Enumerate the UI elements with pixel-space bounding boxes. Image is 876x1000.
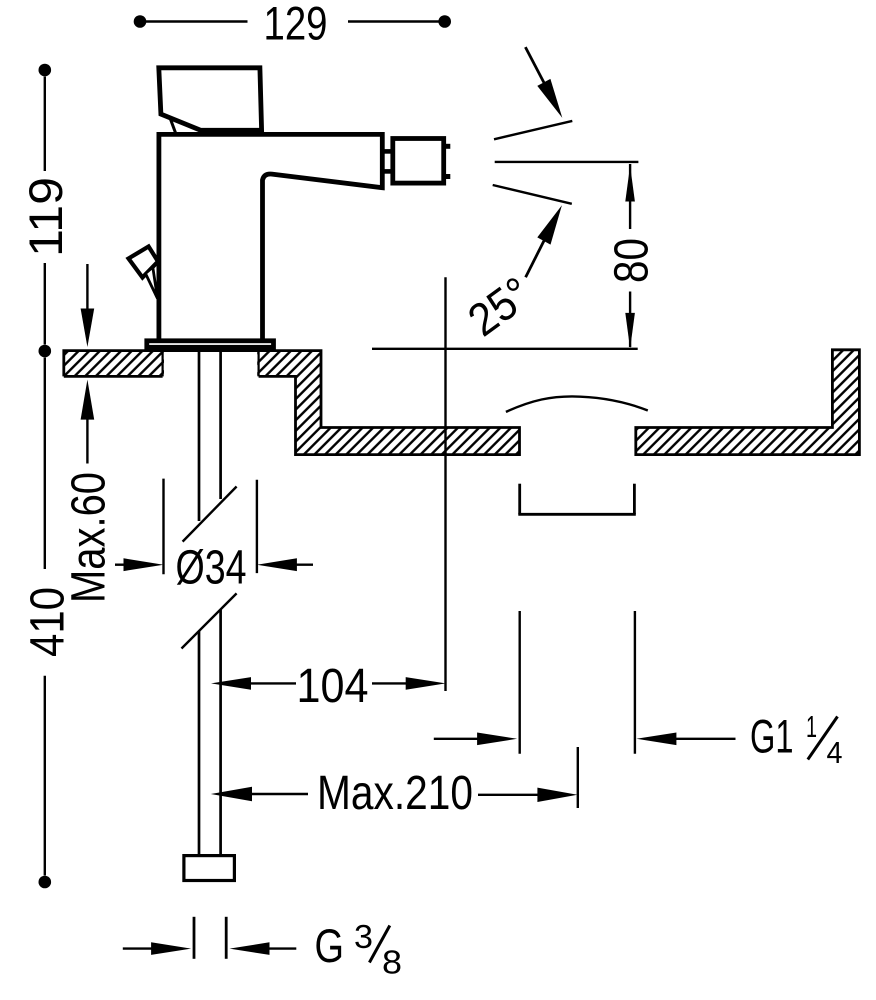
- svg-text:129: 129: [264, 0, 328, 50]
- supply pipe right upper: [219, 351, 222, 500]
- aerator connect tick lower: [383, 169, 391, 174]
- dim O34 tail right: [295, 564, 313, 566]
- dim Max60 arrow down: [81, 309, 95, 348]
- dim 104 tail right: [372, 682, 407, 684]
- svg-text:G1: G1: [750, 710, 794, 763]
- dim 129 line right: [348, 20, 441, 22]
- dim Max210 arrow right: [537, 788, 577, 802]
- dim 104 arrow left: [211, 677, 251, 690]
- supply pipe left upper: [198, 351, 201, 522]
- left dim line seg 3: [44, 358, 46, 570]
- svg-text:80: 80: [605, 238, 658, 283]
- dim Max60 upper shaft: [86, 264, 88, 310]
- dim 129 dot right: [438, 15, 451, 28]
- drain centerline: [444, 277, 446, 691]
- dim O34 arrow left: [124, 558, 164, 571]
- aerator body: [393, 139, 444, 184]
- drain stub left: [518, 484, 521, 515]
- drain stub bottom: [518, 513, 636, 516]
- dim G114 ext line left: [519, 611, 521, 754]
- countertop right section hatch fill: [636, 350, 860, 455]
- aerator nub upper: [446, 144, 450, 149]
- svg-text:G: G: [315, 919, 345, 972]
- faucet hole edge right: [258, 352, 260, 376]
- dim Max210 tail right: [478, 794, 538, 796]
- dim 80 arrow down: [625, 313, 635, 349]
- countertop left section hatch fill: [64, 351, 520, 455]
- dim O34 arrow right: [257, 558, 297, 571]
- faucet hole gap in countertop: [164, 352, 257, 378]
- water surface reference line: [372, 348, 638, 350]
- svg-text:3: 3: [354, 918, 373, 955]
- svg-text:119: 119: [19, 177, 72, 257]
- upper leader arrowhead: [537, 79, 562, 118]
- left dim dot top: [39, 64, 52, 77]
- dim G114 arrow left: [477, 733, 517, 746]
- dim Max210 tail left: [251, 793, 308, 795]
- dim G38 tail right: [268, 947, 296, 949]
- dim 104 tail left: [250, 682, 296, 684]
- dim G114 ext line right: [634, 611, 636, 754]
- dim O34 tail left: [115, 564, 126, 566]
- dim Max210 arrow left: [211, 787, 252, 801]
- pipe nut: [184, 856, 235, 881]
- countertop left outline: [64, 351, 520, 455]
- svg-text:4: 4: [827, 735, 843, 770]
- svg-text:1: 1: [806, 709, 817, 744]
- angle leader arrow shaft: [526, 238, 546, 277]
- dim 80 line upper: [629, 164, 631, 229]
- faucet hole edge left: [162, 352, 164, 376]
- left dim dot middle: [39, 345, 52, 358]
- bowl water arc: [506, 396, 648, 412]
- svg-text:Max.60: Max.60: [63, 472, 116, 603]
- faucet handle: [159, 68, 262, 131]
- dim G38 arrow left: [151, 942, 191, 955]
- svg-text:Max.210: Max.210: [317, 767, 473, 820]
- faucet body and spout: [159, 134, 382, 338]
- svg-text:Ø34: Ø34: [176, 542, 247, 595]
- dim Max210 ext line right: [577, 747, 579, 808]
- pipe break upper: [183, 487, 237, 542]
- faucet handle lever line: [170, 117, 177, 136]
- left dim dot bottom: [39, 876, 52, 889]
- upper leader arrow shaft: [525, 47, 545, 85]
- drain stub right: [633, 484, 636, 515]
- left dim line seg 4: [44, 676, 46, 876]
- spray lower line: [493, 185, 572, 204]
- dim 129 line left: [144, 20, 248, 22]
- dim G38 arrow right: [230, 942, 270, 955]
- dim O34 ext line left: [162, 479, 164, 575]
- popup rod knob: [129, 247, 159, 278]
- popup rod: [146, 267, 158, 298]
- supply pipe right lower: [219, 610, 222, 855]
- dim G38 tail left: [123, 947, 152, 949]
- countertop right outline: [636, 350, 860, 455]
- pipe break lower: [182, 593, 237, 648]
- supply pipe left lower: [198, 631, 201, 854]
- left dim line seg 2: [44, 263, 46, 345]
- angle leader arrowhead: [537, 205, 562, 244]
- dim G38 ext line right: [225, 917, 228, 959]
- dim Max60 lower shaft: [86, 419, 88, 464]
- dim 129 dot left: [134, 15, 147, 28]
- dim 104 arrow right: [406, 677, 446, 690]
- dim O34 ext line right: [256, 480, 258, 573]
- dim 80 line lower: [629, 292, 631, 348]
- dim G114 arrow right: [636, 733, 676, 746]
- dim 80 arrow up: [625, 166, 635, 202]
- faucet base flange: [147, 341, 274, 348]
- spray upper line: [494, 121, 572, 139]
- svg-text:104: 104: [297, 660, 369, 713]
- left dim line seg 1: [44, 77, 46, 172]
- label G114 fraction slash: [808, 717, 838, 760]
- aerator nub lower: [446, 174, 450, 179]
- label G38 fraction slash: [369, 926, 389, 963]
- dim G114 tail right: [675, 738, 736, 740]
- svg-text:8: 8: [382, 944, 402, 981]
- dim G114 tail left: [434, 738, 478, 740]
- spray middle line: [495, 161, 639, 163]
- dim G38 ext line left: [193, 917, 196, 959]
- dim Max60 arrow up: [81, 380, 95, 420]
- aerator connect tick upper: [383, 149, 391, 154]
